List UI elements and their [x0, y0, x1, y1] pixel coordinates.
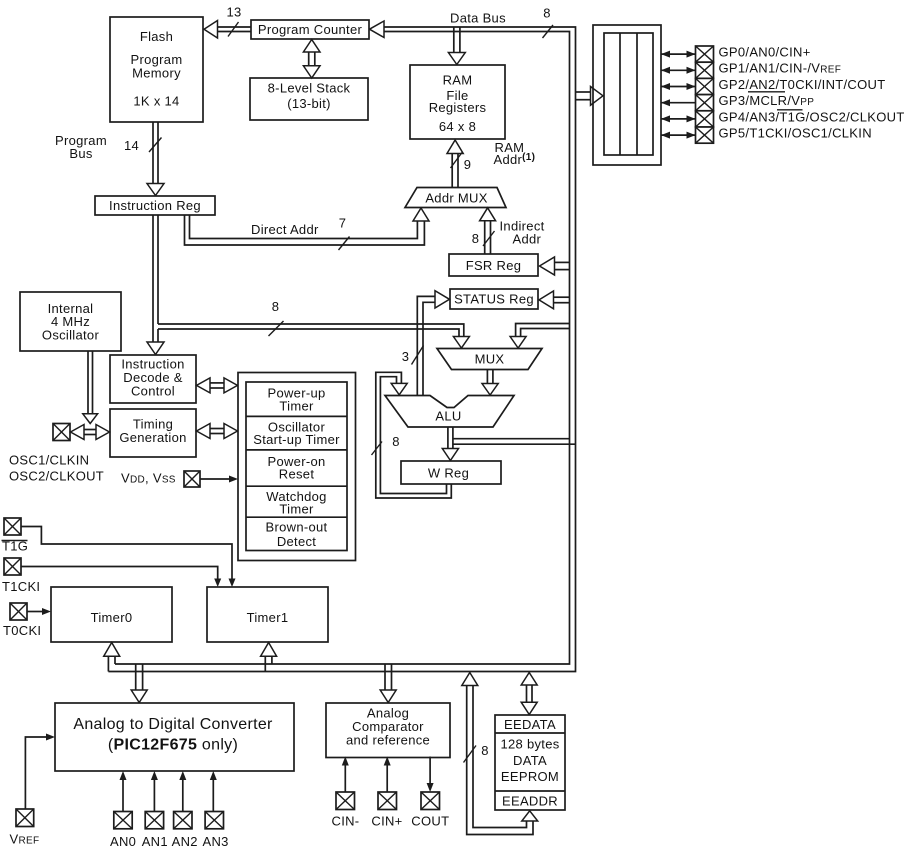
svg-text:3: 3: [402, 349, 410, 364]
svg-text:8: 8: [481, 743, 489, 758]
block EEDATA cell: [495, 717, 565, 733]
wire T1CKI pad to Timer1: [21, 567, 221, 588]
pin pad T1G: [4, 518, 21, 535]
svg-text:CIN-: CIN-: [332, 814, 360, 829]
wire bus into STATUS Reg right side: [539, 291, 570, 309]
pin pad AN1: [145, 812, 163, 829]
svg-text:GP5/T1CKI/OSC1/CLKIN: GP5/T1CKI/OSC1/CLKIN: [719, 126, 872, 141]
block Program Counter: [251, 20, 369, 39]
pin pad GP4: [696, 111, 714, 127]
block Timer0: [51, 587, 172, 642]
node bus width slash 7: [339, 216, 350, 251]
svg-text:EEADDR: EEADDR: [502, 794, 558, 809]
node Data Bus label: [450, 11, 506, 26]
wire port to GP0 pad bidirectional: [661, 51, 696, 58]
wire 8-bit literal bus from Instruction Reg line to MUX left input: [158, 324, 469, 348]
block GPIO port outer box: [593, 25, 661, 165]
svg-text:and reference: and reference: [346, 733, 430, 748]
svg-text:AN1: AN1: [142, 834, 168, 849]
svg-text:STATUS Reg: STATUS Reg: [454, 292, 534, 307]
svg-text:T1CKI: T1CKI: [2, 579, 40, 594]
svg-text:7: 7: [339, 216, 347, 231]
svg-text:8: 8: [543, 6, 551, 21]
svg-text:GP1/AN1/CIN-/VREF: GP1/AN1/CIN-/VREF: [719, 61, 842, 76]
wire EEADDR loop to data bus (8-bit): [462, 673, 538, 835]
wire bus into FSR Reg: [540, 257, 570, 275]
wire Flash to Instruction Reg (14-bit program bus): [147, 122, 164, 196]
svg-text:9: 9: [464, 157, 472, 172]
node bus width slash 3: [402, 346, 424, 365]
svg-text:MUX: MUX: [475, 352, 505, 367]
block 128 bytes DATA EEPROM cell: [495, 737, 565, 792]
wire FSR Reg to Addr MUX (8-bit indirect addr): [480, 208, 496, 254]
node T1G label with overline: [2, 539, 29, 554]
node RAM Addr(1) label: [494, 140, 536, 167]
svg-text:Addr: Addr: [513, 232, 542, 247]
wire VREF pad to ADC: [25, 734, 55, 810]
wire port to GP4 pad bidirectional: [661, 115, 696, 122]
svg-text:128 bytes: 128 bytes: [500, 737, 559, 752]
node OSC1/CLKIN label: [9, 453, 89, 468]
block Power-on Reset cell: [246, 450, 347, 482]
pin pad GP5: [696, 127, 714, 143]
wire AN0 pad up into ADC: [120, 771, 127, 812]
svg-text:8: 8: [472, 231, 480, 246]
pin label GP0/AN0/CIN+: [719, 45, 811, 60]
node bus width slash 8 (indirect): [472, 231, 495, 246]
wire T1G pad to Timer1: [21, 527, 236, 588]
node bus width slash 14: [124, 138, 162, 154]
svg-text:CIN+: CIN+: [371, 814, 402, 829]
svg-text:Addr MUX: Addr MUX: [425, 191, 487, 206]
svg-text:Start-up Timer: Start-up Timer: [253, 432, 340, 447]
pin pad AN0: [114, 812, 132, 829]
wire data bus branch into GPIO port: [576, 87, 604, 106]
wire GP3 pad input only: [661, 99, 696, 106]
pin label GP4/AN3/T1G/OSC2/CLKOUT with T1G overline: [719, 109, 905, 124]
wire data bus down into comparator: [380, 664, 396, 703]
wire OSC pad to Timing Generation bidirectional: [71, 425, 110, 440]
wire data bus arrow into Program Counter: [370, 21, 385, 38]
block EEADDR cell: [502, 794, 558, 809]
wire port to GP2 pad bidirectional: [661, 83, 696, 90]
wire data bus to MUX right input: [510, 324, 569, 349]
wire CIN+ pad up into comparator: [384, 757, 391, 793]
node Direct Addr label: [251, 222, 319, 237]
block Internal 4 MHz Oscillator: [20, 292, 121, 351]
pin label GP1/AN1/CIN-/VREF: [719, 61, 842, 76]
svg-text:EEDATA: EEDATA: [504, 717, 556, 732]
pin pad VDD VSS: [184, 471, 200, 487]
wire port to GP1 pad bidirectional: [661, 67, 696, 74]
pin label GP3/MCLR/VPP with MCLR overline: [719, 92, 815, 108]
wire VDD VSS pad into function block: [200, 476, 238, 483]
wire Program Counter to Stack (bidirectional): [303, 40, 320, 79]
node bus width slash 8 (literal bus): [269, 299, 284, 336]
svg-text:Direct Addr: Direct Addr: [251, 222, 319, 237]
pin pad COUT: [421, 792, 440, 810]
svg-text:Timer: Timer: [279, 502, 314, 517]
svg-text:Registers: Registers: [429, 100, 487, 115]
svg-text:Bus: Bus: [69, 146, 93, 161]
pin label GP2/AN2/T0CKI/INT/COUT: [719, 77, 886, 92]
block Instruction Decode and Control: [110, 355, 196, 403]
node bus width slash 8 (W feedback): [372, 434, 400, 455]
node T1CKI label: [2, 579, 40, 594]
svg-text:Generation: Generation: [119, 430, 186, 445]
wire Addr MUX to RAM (9-bit RAM Addr): [447, 140, 463, 188]
svg-text:8-Level Stack: 8-Level Stack: [268, 81, 351, 96]
wire data bus up into Timer0: [104, 643, 120, 672]
pin pad AN2: [174, 812, 192, 829]
wire W Reg feedback loop into ALU (8-bit): [376, 372, 452, 498]
svg-text:DATA: DATA: [513, 753, 547, 768]
node Program Bus label: [55, 133, 107, 161]
svg-text:GP2/AN2/T0CKI/INT/COUT: GP2/AN2/T0CKI/INT/COUT: [719, 77, 886, 92]
pin pad CIN+: [378, 792, 397, 810]
block STATUS Reg: [450, 289, 538, 309]
node AN0 AN1 AN2 AN3 labels: [110, 834, 229, 849]
node bus width slash 8 (data bus): [543, 6, 554, 39]
pin pad AN3: [205, 812, 223, 829]
node bus width slash 9: [451, 153, 472, 173]
wire comparator output down to COUT pad: [427, 757, 434, 793]
node bus width slash 8 (EEPROM): [464, 743, 489, 763]
svg-text:Detect: Detect: [277, 534, 316, 549]
svg-text:Flash: Flash: [140, 29, 173, 44]
svg-text:W Reg: W Reg: [428, 466, 469, 481]
block Flash Program Memory: [110, 17, 203, 122]
svg-text:Timer1: Timer1: [247, 610, 289, 625]
svg-text:8: 8: [392, 434, 400, 449]
svg-text:FSR Reg: FSR Reg: [466, 258, 522, 273]
svg-text:COUT: COUT: [411, 814, 449, 829]
svg-text:AN3: AN3: [203, 834, 229, 849]
wire port to GP5 pad bidirectional: [661, 132, 696, 139]
node VDD VSS label: [121, 471, 176, 486]
svg-text:(PIC12F675 only): (PIC12F675 only): [108, 737, 238, 754]
wire ALU flags into STATUS Reg left side (3-bit): [417, 291, 449, 396]
pin pad OSC1/OSC2: [53, 424, 70, 441]
wire data bus up into Timer1: [261, 643, 277, 672]
block Power-up Timer cell: [246, 382, 347, 551]
block RAM File Registers: [410, 65, 505, 139]
svg-text:RAM: RAM: [443, 73, 473, 88]
svg-text:Timer: Timer: [279, 399, 314, 414]
node CIN- CIN+ COUT labels: [332, 814, 450, 829]
svg-text:Brown-out: Brown-out: [266, 520, 328, 535]
wire Instruction Decode to function block bidirectional: [197, 378, 238, 393]
wire AN1 pad up into ADC: [151, 771, 158, 812]
block MUX trapezoid: [437, 349, 542, 370]
wire internal oscillator down to timing generation input: [83, 351, 98, 424]
wire CIN- pad up into comparator: [342, 757, 349, 793]
wire data bus down into ADC: [131, 664, 147, 703]
block ALU: [385, 396, 514, 428]
svg-text:8: 8: [272, 299, 280, 314]
svg-text:Analog to Digital Converter: Analog to Digital Converter: [73, 716, 273, 733]
block Oscillator Start-up Timer cell: [246, 416, 347, 447]
svg-text:Memory: Memory: [132, 66, 181, 81]
wire data bus branch down into RAM: [448, 27, 465, 65]
pin pad CIN-: [336, 792, 355, 810]
svg-text:GP0/AN0/CIN+: GP0/AN0/CIN+: [719, 45, 811, 60]
wire Program Counter to Flash (13-bit): [204, 21, 251, 39]
node OSC2/CLKOUT label: [9, 469, 104, 484]
node T0CKI label: [3, 623, 41, 638]
block Analog Comparator and reference: [326, 703, 450, 758]
block EEPROM outer: [495, 715, 565, 810]
svg-text:(13-bit): (13-bit): [287, 96, 331, 111]
block Addr MUX: [405, 188, 506, 208]
svg-text:AN2: AN2: [172, 834, 198, 849]
block Timer1: [207, 587, 328, 642]
node Indirect Addr label: [500, 219, 545, 247]
pin pad T0CKI: [10, 603, 27, 620]
svg-text:14: 14: [124, 138, 139, 153]
svg-text:ALU: ALU: [435, 409, 461, 424]
svg-text:Reset: Reset: [279, 467, 315, 482]
block 8-Level Stack: [250, 78, 368, 120]
pin label GP5/T1CKI/OSC1/CLKIN: [719, 126, 872, 141]
svg-text:1K x 14: 1K x 14: [133, 94, 179, 109]
svg-text:T0CKI: T0CKI: [3, 623, 41, 638]
wire Direct Addr path from Instruction Reg to Addr MUX (7-bit): [185, 208, 430, 245]
wire Timing Generation to function block bidirectional: [197, 424, 238, 439]
block W Reg: [401, 461, 501, 484]
wire AN2 pad up into ADC: [179, 771, 186, 812]
wire data bus to EEDATA bidirectional: [521, 673, 537, 715]
block GPIO port inner register columns: [604, 33, 653, 155]
block FSR Reg: [449, 254, 538, 276]
svg-text:Data Bus: Data Bus: [450, 11, 506, 26]
wire T0CKI pad to Timer0: [27, 608, 51, 615]
svg-text:Oscillator: Oscillator: [42, 328, 100, 343]
node VREF label: [10, 832, 40, 847]
wire Instruction Reg down to Instruction Decode: [147, 215, 164, 355]
block Watchdog Timer cell: [246, 486, 347, 516]
svg-text:OSC2/CLKOUT: OSC2/CLKOUT: [9, 469, 104, 484]
node bus width slash 13: [226, 5, 241, 37]
wire MUX output into ALU: [482, 370, 498, 396]
pin pad GP2: [696, 78, 714, 94]
pin pad GP1: [696, 62, 714, 78]
wire AN3 pad up into ADC: [210, 771, 217, 812]
wire ALU output to data bus: [453, 439, 576, 445]
svg-text:Instruction Reg: Instruction Reg: [109, 198, 201, 213]
block Brown-out Detect cell: [246, 517, 347, 549]
pin pad GP3: [696, 95, 714, 111]
svg-text:64 x 8: 64 x 8: [439, 119, 476, 134]
svg-text:GP3/MCLR/VPP: GP3/MCLR/VPP: [719, 93, 815, 108]
svg-text:OSC1/CLKIN: OSC1/CLKIN: [9, 453, 89, 468]
svg-text:Program Counter: Program Counter: [258, 22, 363, 37]
block reset/timer functions outer box: [238, 373, 356, 561]
wire data bus ring (top, right side, bottom) outer line: [108, 27, 575, 672]
block Analog to Digital Converter: [55, 703, 294, 771]
block Instruction Reg: [95, 196, 215, 215]
wire ALU output down into W Reg: [442, 427, 458, 461]
svg-text:Timer0: Timer0: [91, 610, 133, 625]
svg-text:VDD, VSS: VDD, VSS: [121, 471, 176, 486]
svg-text:AN0: AN0: [110, 834, 136, 849]
svg-text:GP4/AN3/T1G/OSC2/CLKOUT: GP4/AN3/T1G/OSC2/CLKOUT: [719, 109, 905, 124]
svg-text:Control: Control: [131, 384, 175, 399]
pin pad VREF: [16, 809, 34, 827]
block Timing Generation: [110, 409, 196, 457]
svg-text:Addr(1): Addr(1): [494, 152, 536, 167]
pin pad GP0: [696, 46, 714, 62]
pin pad T1CKI: [4, 558, 21, 575]
svg-text:VREF: VREF: [10, 832, 40, 847]
svg-text:EEPROM: EEPROM: [501, 769, 559, 784]
svg-text:13: 13: [226, 5, 241, 20]
